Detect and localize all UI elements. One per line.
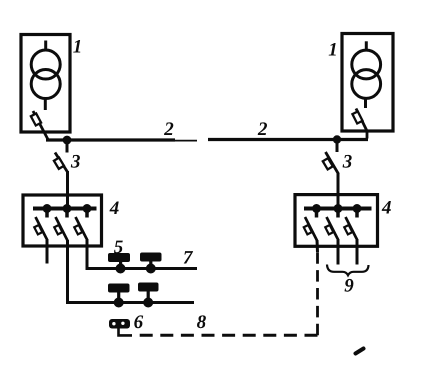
wire: outgoing stub b below right cabinet [356,240,359,265]
distribution cabinet 4 (left) box [23,195,102,246]
busbar inside right cabinet [304,207,372,211]
dashed feeder 8: vertical riser to right cabinet [316,250,319,335]
label 1 (left transformer) [73,40,80,53]
luminaire 5 (row2 second): box, stub, node dot [138,283,159,308]
label 2 (right line) [258,122,267,135]
label 5 (luminaires) [114,241,123,254]
wire: solid start of dashed feeder below right cabinet [316,240,320,252]
transformer T1 (right) two-winding symbol [352,41,381,108]
transformer T1 (left) two-winding symbol [31,41,60,111]
fused switch 3 (right) [323,152,339,174]
fused switch inside T1 box (right) [352,109,367,139]
label 7 (lighting line) [184,251,193,263]
label 1 (right transformer) [329,43,336,56]
trunk line 2 (left segment) [46,138,197,142]
trunk line 2 (right segment) [208,138,368,141]
wire: drop from switch 3 into cabinet 4 (left) [66,171,69,210]
label 3 (left switch) [71,155,80,168]
label 9 (outgoing feeders) [345,279,354,292]
fused switch 3 in left cabinet [74,217,87,241]
luminaire 5 (row1 second): box, stub, node dot [140,253,162,274]
label 2 (left line) [164,122,173,135]
stray pen mark bottom right [356,349,364,354]
node dots and stubs on left cabinet busbar [43,205,91,218]
label 4 (left cabinet) [110,202,119,215]
wire: outgoing stub a below right cabinet [337,240,340,265]
wire: elbow from socket 6 to dashed line 8 [119,328,133,335]
node: junction dot on right bus [333,135,341,143]
wire: stub below right junction [336,140,339,153]
dashed feeder 8: horizontal run [133,334,318,337]
wire: feeder to second lighting line (down then right) [68,240,195,303]
wire: stub below left junction [66,140,69,153]
fused switch 3 (left) [54,153,68,173]
fused switch 2 in right cabinet [325,217,338,241]
fused switch 2 in left cabinet [54,217,67,241]
label 3 (right switch) [343,155,352,168]
label 6 (socket) [134,315,143,328]
fused switch inside T1 box (left) [31,111,48,140]
transformer T1 (right) enclosure box [342,34,393,132]
wire: feeder to first lighting line 7 (down then right) [87,240,197,269]
brace for outgoing feeders 9 [327,265,369,276]
wire: spare stub below left cabinet [46,240,49,264]
luminaire 5 (row2 first): box, stub, node dot [108,284,130,308]
node dots and stubs on right cabinet busbar [313,205,362,218]
luminaire 5 (row1 first): box, stub, node dot [108,253,130,274]
transformer T1 (left) enclosure box [21,35,70,133]
distribution cabinet 4 (right) box [295,195,378,247]
fused switch 3 in right cabinet [344,217,357,241]
busbar inside left cabinet [33,207,97,211]
socket outlet 6: filled box with two white dots [109,319,130,329]
label 8 (dashed feeder) [197,315,206,328]
fused switch 1 in right cabinet [304,217,317,241]
label 4 (right cabinet) [382,201,391,214]
wire: drop from right switch 3 into cabinet 4 (right) [337,173,340,210]
node: junction dot on left bus [63,136,72,145]
fused switch 1 in left cabinet [34,217,47,241]
